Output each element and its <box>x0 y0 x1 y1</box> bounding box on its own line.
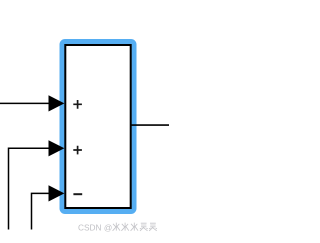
wire: input 1 <box>0 102 50 104</box>
selection highlight (blue) around Sum block <box>62 42 134 212</box>
wire: output <box>131 124 170 126</box>
port label + (input 2) <box>73 146 82 155</box>
watermark glyph 灵 (2) <box>149 223 157 231</box>
sum block U1 body <box>65 45 130 208</box>
wire: input 3 (elbow) <box>32 193 51 229</box>
arrowhead input 1 <box>49 95 65 111</box>
arrowhead input 2 <box>49 140 65 156</box>
watermark glyph 水 (1) <box>113 223 120 231</box>
wire: input 2 (elbow) <box>9 148 51 229</box>
arrowhead input 3 <box>49 185 65 201</box>
port label - (input 3) <box>73 193 82 195</box>
watermark glyph 灵 (1) <box>140 223 148 231</box>
watermark glyph 水 (3) <box>131 223 138 231</box>
watermark glyph 水 (2) <box>121 223 128 231</box>
port label + (input 1) <box>73 100 82 109</box>
svg-text:CSDN @: CSDN @ <box>78 222 112 232</box>
